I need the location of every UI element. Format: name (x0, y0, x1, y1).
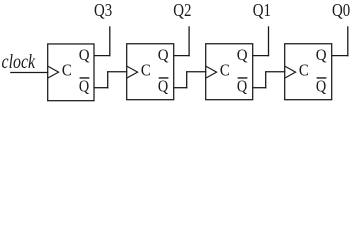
svg-text:Q: Q (158, 77, 168, 96)
svg-text:Q0: Q0 (332, 0, 350, 20)
wire U4 Q output to Q0 riser (332, 55, 349, 57)
wire U1 Q output to Q3 riser (94, 55, 110, 57)
clock wedge U2 (127, 66, 138, 78)
svg-text:Q: Q (158, 46, 169, 64)
wire U3 Q-bar riser (265, 71, 267, 88)
wire U1 Q-bar riser (107, 71, 109, 88)
svg-text:Q: Q (316, 46, 327, 64)
wire U3 Q output to Q1 riser (253, 55, 269, 57)
flip-flop U3 body (206, 44, 253, 100)
wire Q1 riser (268, 26, 270, 56)
clock wedge U1 (48, 66, 59, 78)
svg-text:Q: Q (79, 77, 89, 96)
wire U3 Q-bar output (253, 87, 267, 89)
flip-flop U4 body (285, 44, 332, 100)
svg-text:Q3: Q3 (94, 0, 112, 20)
wire U2 Q-bar riser (186, 71, 188, 88)
svg-text:C: C (299, 60, 309, 79)
pin label Q-bar U3 (237, 77, 248, 96)
wire Q3 riser (109, 26, 111, 56)
pin label Q-bar U2 (158, 77, 169, 96)
svg-text:C: C (220, 60, 230, 79)
flip-flop U1 body (48, 44, 94, 101)
flip-flop U2 body (127, 44, 174, 100)
svg-text:Q: Q (237, 77, 247, 96)
clock wedge U3 (206, 66, 217, 78)
wire Q0 riser (347, 26, 349, 56)
pin label Q-bar U4 (316, 77, 327, 96)
wire U1 Q-bar output (94, 87, 108, 89)
wire U2 Q output to Q2 riser (174, 55, 190, 57)
wire Q2 riser (188, 26, 190, 56)
wire clock input to U1 pin C (10, 72, 48, 74)
svg-text:Q: Q (237, 46, 248, 64)
wire U2 Q-bar to U3 pin C (187, 71, 207, 73)
svg-text:Q: Q (316, 77, 326, 96)
pin label Q-bar U1 (79, 77, 90, 96)
wire U1 Q-bar to U2 pin C (108, 71, 128, 73)
wire U2 Q-bar output (174, 87, 188, 89)
svg-text:Q2: Q2 (173, 0, 191, 20)
svg-text:Q: Q (79, 46, 90, 64)
svg-text:clock: clock (2, 52, 36, 73)
wire U3 Q-bar to U4 pin C (266, 71, 286, 73)
svg-text:C: C (141, 60, 151, 79)
svg-text:C: C (62, 60, 72, 79)
svg-text:Q1: Q1 (253, 0, 271, 20)
clock wedge U4 (285, 66, 296, 78)
